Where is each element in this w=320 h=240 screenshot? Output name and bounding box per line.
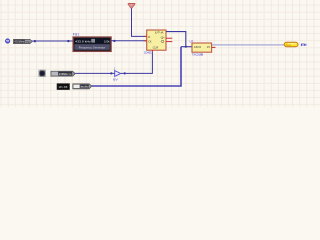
junction dot xyxy=(34,40,36,42)
svg-text:TXC018B: TXC018B xyxy=(192,53,204,57)
svg-text:audio: audio xyxy=(81,85,89,89)
antenna label xyxy=(301,43,307,46)
red pin stub right xyxy=(212,46,216,48)
svg-text:CK: CK xyxy=(148,40,152,44)
red pin stub left D xyxy=(144,35,147,37)
svg-text:coil: coil xyxy=(286,44,292,47)
junction dot xyxy=(110,72,112,74)
wire: U1 Q output right then down xyxy=(166,32,186,47)
wire: node branch down and left to audio terminal (thick) xyxy=(92,47,181,86)
encoder U2 xyxy=(190,39,216,56)
wire: power terminal down and into U1 D pin xyxy=(132,8,147,36)
svg-text:D: D xyxy=(148,35,150,39)
audio file source (black box) xyxy=(57,84,70,90)
wire: U1 CLR down to buffer row xyxy=(121,52,152,73)
svg-text:BV: BV xyxy=(113,77,118,81)
svg-text:15: 15 xyxy=(207,45,211,49)
svg-text:U?:A: U?:A xyxy=(155,30,164,34)
frequency generator FG1 xyxy=(73,33,111,52)
audio source icon xyxy=(5,39,10,44)
svg-text:Frequency Generator: Frequency Generator xyxy=(79,45,106,49)
input terminal bar (signal label) xyxy=(14,39,33,43)
svg-text:100k: 100k xyxy=(104,39,110,43)
red pin stub left CLK xyxy=(144,40,147,42)
svg-text:433MHz rx: 433MHz rx xyxy=(59,72,72,76)
svg-text:433.9 kHz: 433.9 kHz xyxy=(75,39,91,43)
svg-text:AD=0: AD=0 xyxy=(194,45,202,49)
audio output terminal bar xyxy=(73,84,92,89)
wire: buffer input side xyxy=(75,72,114,74)
junction dot xyxy=(113,40,115,42)
svg-text:FG1: FG1 xyxy=(73,33,79,37)
logic probe / buffer symbol xyxy=(113,67,121,82)
push button xyxy=(39,70,46,77)
D flip-flop U1 xyxy=(144,30,172,55)
aerial coil L1 xyxy=(284,42,298,47)
junction dot xyxy=(67,40,69,42)
red pin stub right xyxy=(166,37,172,39)
red pin stub right xyxy=(166,41,172,43)
wire: node to U2 input pin xyxy=(181,46,192,48)
power terminal (+V) xyxy=(128,4,136,9)
junction dot xyxy=(124,72,126,74)
wire: U2 output to aerial coil (light) xyxy=(212,44,284,46)
microphone terminal bar xyxy=(51,71,75,76)
svg-text:MIC 45B: MIC 45B xyxy=(59,86,68,89)
junction dot at U2 input node xyxy=(185,46,187,48)
svg-text:CD4013: CD4013 xyxy=(144,51,153,55)
wire: FG1 output to U1 CLK pin xyxy=(111,40,147,42)
wire: terminal to frequency generator xyxy=(32,40,73,42)
red pin stub bottom CLR xyxy=(151,50,153,52)
svg-text:CLR: CLR xyxy=(153,46,159,50)
svg-text:433.92MHz: 433.92MHz xyxy=(15,40,25,44)
